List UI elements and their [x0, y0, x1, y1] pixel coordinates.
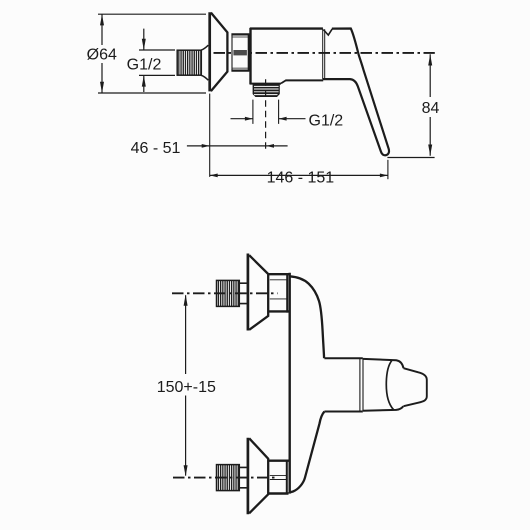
outlet G1/2 dimension ext lines	[253, 100, 279, 124]
inlet pipe flare bottom	[201, 75, 208, 80]
visible thread in nut gap	[233, 50, 247, 55]
dimension 146-151 line	[210, 174, 388, 176]
dimension 46-51 line	[187, 145, 288, 147]
outlet thread block (G1/2 shower hose)	[253, 84, 280, 97]
cartridge joint lines	[323, 29, 325, 79]
dimension 46-51 arrow left	[266, 144, 274, 148]
dimension Ø64 extension line top	[98, 13, 206, 15]
dimension G1/2 inlet arrow up	[142, 75, 146, 86]
dimension Ø64 extension line bottom	[98, 92, 206, 94]
dimension G1/2 inlet ext bottom	[139, 74, 175, 76]
outlet centerline (dashed)	[265, 79, 267, 149]
dimension G1/2 inlet stems	[143, 29, 145, 92]
lower connection nut	[269, 460, 289, 494]
spout cone end arc	[386, 360, 393, 409]
outlet G1/2 arrow right	[245, 117, 253, 121]
inlet pipe flare top	[201, 45, 208, 50]
dimension 84 line	[429, 54, 431, 155]
lower supply thread	[217, 465, 240, 491]
dimension Ø64 arrow up	[100, 14, 104, 25]
lever handle outline	[323, 29, 389, 156]
dimension 150+-15 line	[185, 295, 187, 475]
centerline main axis (top view)	[214, 52, 435, 54]
dimension Ø64 arrow down	[100, 82, 104, 93]
inlet pipe thread (side view)	[177, 50, 201, 75]
nozzle tip	[404, 368, 427, 406]
body bottom diagonal side	[290, 412, 325, 493]
svg-text:84: 84	[422, 100, 440, 117]
upper inlet centerline	[172, 292, 278, 294]
dimension 146-151 arrow right	[380, 174, 388, 178]
svg-text:150+-15: 150+-15	[157, 379, 216, 396]
spout cone bottom edge	[363, 406, 403, 410]
svg-text:Ø64: Ø64	[87, 47, 117, 64]
upper connection nut	[269, 274, 289, 313]
spout bottom edge	[324, 411, 362, 413]
body top shoulder curve	[290, 276, 324, 358]
dimension Ø64 line	[101, 14, 103, 93]
wall extension line	[209, 94, 211, 177]
dimension G1/2 inlet ext top	[139, 49, 175, 51]
spout cone top edge	[363, 359, 404, 368]
lower supply pipe	[239, 467, 247, 487]
upper escutcheon wall flange	[247, 254, 250, 331]
outlet G1/2 dimension line	[231, 118, 306, 120]
dimension G1/2 inlet arrow down	[142, 39, 146, 50]
svg-text:146 - 151: 146 - 151	[267, 170, 335, 187]
body back edge (wall side)	[289, 273, 291, 494]
dimension 84 arrow down	[428, 145, 432, 156]
mixer body (side view)	[250, 28, 324, 84]
svg-text:G1/2: G1/2	[309, 112, 344, 129]
escutcheon (side view) wall flange	[208, 12, 211, 91]
outlet G1/2 arrow left	[279, 117, 287, 121]
spout top edge	[324, 357, 362, 359]
dimension 150+-15 arrow up	[184, 295, 188, 306]
upper supply pipe	[239, 283, 247, 303]
svg-text:46 - 51: 46 - 51	[131, 140, 181, 157]
svg-text:G1/2: G1/2	[127, 56, 162, 73]
lower escutcheon cone	[249, 438, 268, 513]
handle notch	[323, 29, 332, 35]
dimension 150+-15 arrow down	[184, 465, 188, 476]
handle tip extension line	[387, 157, 434, 159]
lower inlet centerline	[173, 477, 278, 479]
spout seam lines	[360, 358, 363, 411]
dimension 146-151 right extension	[387, 160, 389, 179]
upper supply thread	[217, 280, 240, 306]
lower escutcheon wall flange	[247, 438, 250, 515]
escutcheon (side view) cone	[211, 13, 228, 92]
dimension 46-51 arrow right	[202, 144, 210, 148]
connection nut (side view)	[231, 34, 249, 71]
upper escutcheon cone	[249, 255, 268, 330]
dimension 146-151 arrow left	[210, 174, 218, 178]
dimension 84 arrow up	[428, 54, 432, 65]
